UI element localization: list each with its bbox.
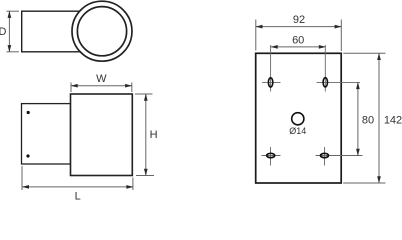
svg-text:80: 80	[362, 115, 374, 127]
svg-text:142: 142	[384, 115, 402, 127]
svg-text:D: D	[0, 26, 7, 38]
svg-text:L: L	[75, 191, 81, 201]
svg-text:H: H	[150, 129, 158, 141]
svg-text:Ø14: Ø14	[289, 126, 306, 136]
svg-text:W: W	[96, 73, 107, 85]
svg-text:60: 60	[292, 35, 304, 47]
svg-text:92: 92	[293, 14, 305, 26]
